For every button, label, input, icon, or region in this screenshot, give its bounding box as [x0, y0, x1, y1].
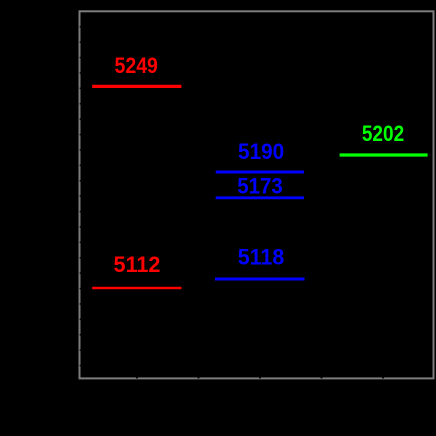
svg-text:5173: 5173: [237, 173, 283, 198]
svg-text:5190: 5190: [238, 139, 284, 164]
level line 5112 (red): [92, 287, 181, 290]
svg-text:5249: 5249: [115, 53, 158, 78]
level line 5173 (blue): [216, 196, 304, 199]
x-axis ticks: [136, 377, 384, 379]
level line 5190 (blue): [216, 171, 304, 174]
svg-text:5118: 5118: [238, 244, 285, 269]
y-axis minor ticks: [80, 26, 82, 366]
level line 5118 (blue): [215, 278, 305, 281]
level line 5249 (red): [92, 85, 181, 88]
level line 5202 (green): [340, 153, 428, 156]
svg-text:5202: 5202: [362, 121, 404, 146]
plot frame: [80, 11, 434, 378]
svg-text:5112: 5112: [114, 252, 161, 277]
